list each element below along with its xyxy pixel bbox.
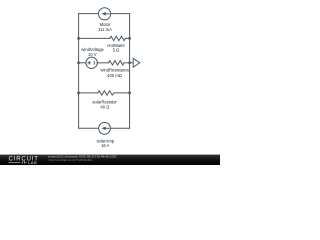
wire HotWater branch left — [79, 37, 110, 39]
svg-text:windResistance: windResistance — [100, 68, 130, 73]
svg-text:5 Ω: 5 Ω — [113, 48, 120, 53]
junction node right-solarResistor — [128, 92, 131, 95]
wire solarResistor branch right — [114, 92, 130, 94]
junction node left-HotWater — [77, 37, 80, 40]
svg-text:16 A: 16 A — [101, 143, 110, 148]
arrow inside solarAmp — [102, 127, 110, 131]
arrow inside Motor — [102, 12, 110, 16]
labels — [81, 22, 130, 148]
wire HotWater branch right — [125, 37, 129, 39]
svg-text:400 mΩ: 400 mΩ — [107, 73, 122, 78]
wire right rail — [129, 14, 131, 129]
svg-text:10 V: 10 V — [88, 52, 97, 57]
svg-text:111 mA: 111 mA — [98, 27, 112, 32]
svg-text:LAB: LAB — [28, 160, 37, 165]
junction node left-solarResistor — [77, 92, 80, 95]
current source Motor — [99, 8, 111, 20]
svg-text:40 Ω: 40 Ω — [100, 104, 109, 109]
wire windVoltage branch left — [79, 62, 86, 64]
junction node right-HotWater — [128, 37, 131, 40]
voltage source windVoltage — [86, 57, 97, 68]
wire bottom branch right — [111, 127, 130, 129]
wire left rail — [78, 14, 80, 129]
resistor HotWater — [110, 36, 126, 40]
current source solarAmp — [99, 122, 111, 134]
wire bottom branch left — [79, 127, 99, 129]
wire top branch left — [79, 13, 99, 15]
junction node right-windResistance — [128, 61, 131, 64]
minus bar inside windVoltage — [93, 61, 95, 65]
plus sign inside windVoltage — [88, 61, 95, 65]
wire source to windResistance — [97, 62, 108, 64]
junction node left-windVoltage — [77, 61, 80, 64]
CircuitLab logo — [9, 156, 39, 165]
svg-text:http://circuitlab.com/c/7n48u5: http://circuitlab.com/c/7n48u5e9hv — [49, 158, 93, 162]
wire solarResistor branch left — [79, 92, 98, 94]
resistor windResistance — [109, 61, 125, 65]
wire windResistance to right rail — [124, 62, 130, 64]
wire top branch right — [111, 13, 130, 15]
flag output terminal — [130, 58, 140, 67]
resistor solarResistor — [98, 91, 114, 95]
